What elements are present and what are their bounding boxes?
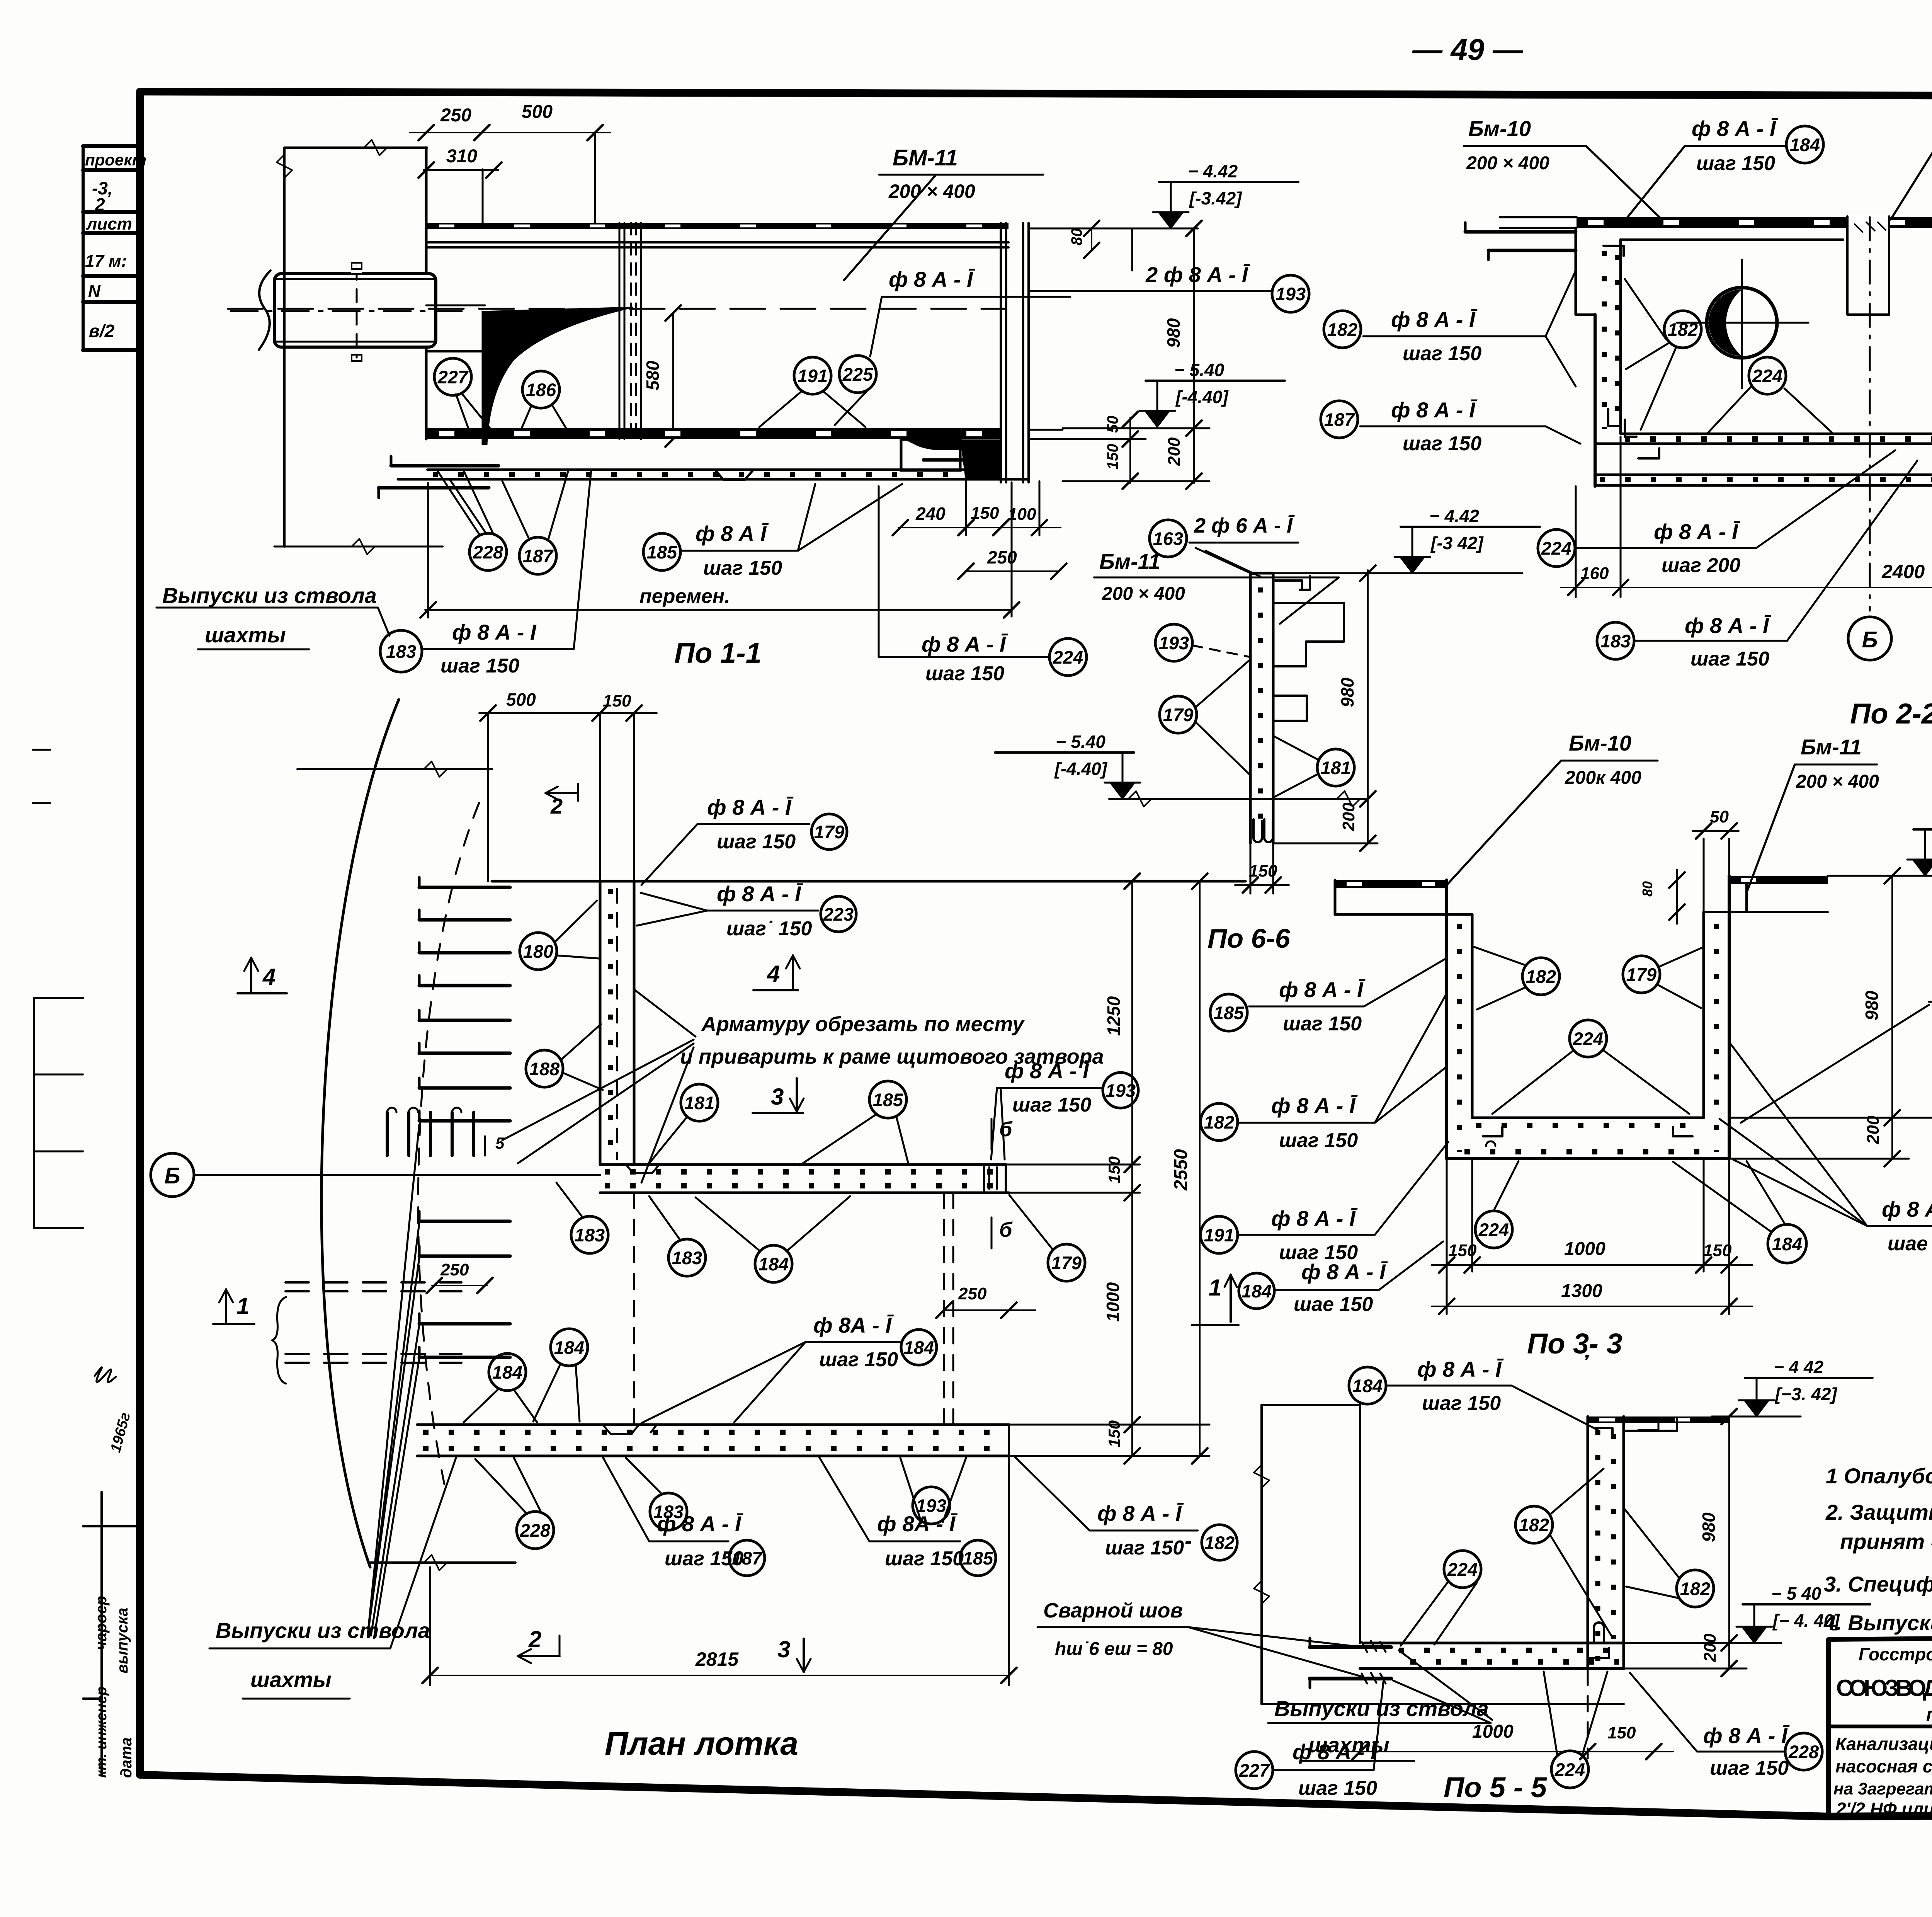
plan: bottom dim 2815 xyxy=(430,1675,1009,1676)
section 2-2: axis dash-dot line xyxy=(1869,217,1871,611)
svg-text:шаг 150: шаг 150 xyxy=(1403,432,1481,455)
section 2-2: left wall inner xyxy=(1619,240,1622,434)
svg-text:182: 182 xyxy=(1668,319,1698,340)
section 1-1: right ext horizontals xyxy=(1063,427,1209,429)
svg-text:Бм-10: Бм-10 xyxy=(1468,116,1531,141)
svg-text:шаг 200: шаг 200 xyxy=(1662,554,1740,577)
callout 179 xyxy=(1048,1244,1085,1281)
section 1-1: floor band bottom lines xyxy=(427,468,1001,471)
axis circle Б (2-2) xyxy=(1848,617,1891,660)
svg-text:лист: лист xyxy=(86,215,132,233)
svg-text:Канализационная: Канализационная xyxy=(1835,1734,1932,1754)
callout 182 xyxy=(1515,1506,1553,1543)
svg-text:200: 200 xyxy=(1339,802,1358,831)
callout 187 xyxy=(1321,401,1358,438)
svg-text:3: 3 xyxy=(777,1636,790,1662)
left fold marks xyxy=(33,998,35,1228)
callout 182 xyxy=(1664,311,1701,348)
callout 187 xyxy=(729,1540,765,1576)
section 1-1: right dims 50/150 xyxy=(1129,417,1131,483)
section 6-6: wall rebar dots xyxy=(1258,587,1263,835)
svg-text:3. Спецификацию арматуры смотр: 3. Спецификацию арматуры смотрите лист А… xyxy=(1824,1572,1932,1596)
svg-text:184: 184 xyxy=(1352,1376,1383,1396)
section 1-1: top dim 250/500 xyxy=(410,132,611,133)
svg-text:1: 1 xyxy=(236,1293,249,1319)
svg-text:ф 8 А - Ī: ф 8 А - Ī xyxy=(1654,519,1740,544)
section 1-1: wall below pipe xyxy=(425,349,428,439)
svg-text:ф 8 А - Ī: ф 8 А - Ī xyxy=(1703,1723,1790,1748)
section 2-2: wall rebar dots xyxy=(1602,251,1607,429)
section 1-1: top slab lower lines xyxy=(427,241,1009,243)
title block left horizontal divider xyxy=(1828,1725,1932,1728)
svg-text:шахты: шахты xyxy=(205,623,286,647)
title block outer box xyxy=(1828,1632,1932,1817)
svg-text:ф 8А - Ī: ф 8А - Ī xyxy=(813,1313,894,1337)
svg-text:184: 184 xyxy=(1242,1281,1272,1301)
svg-text:БМ-11: БМ-11 xyxy=(893,145,958,170)
section 3-3: bottom dim line 150/1000/150 xyxy=(1432,1264,1752,1266)
callout 193 xyxy=(1103,1073,1138,1108)
svg-text:250: 250 xyxy=(440,105,471,126)
svg-text:224: 224 xyxy=(1573,1028,1603,1049)
svg-text:шаг 150: шаг 150 xyxy=(1012,1094,1091,1116)
svg-text:шаг 150: шаг 150 xyxy=(819,1348,898,1371)
svg-text:По 2-2: По 2-2 xyxy=(1850,698,1932,730)
svg-text:− 5.40: − 5.40 xyxy=(1056,732,1106,752)
section 1-1: floor right step detail xyxy=(901,439,960,470)
svg-text:224: 224 xyxy=(1447,1559,1478,1580)
svg-text:228: 228 xyxy=(473,542,503,562)
callout 224 xyxy=(1570,1020,1607,1057)
section 1-1: step line above wedge xyxy=(426,305,485,306)
callout 184 xyxy=(1349,1367,1386,1404)
callout 224 xyxy=(1538,529,1575,567)
elevation mark -5.40 (1-1) xyxy=(1029,428,1198,429)
svg-text:17 м:: 17 м: xyxy=(85,252,127,271)
section 3-3: left wall dots xyxy=(1457,924,1462,1152)
svg-text:50: 50 xyxy=(1104,416,1121,433)
svg-text:hш˙6 еш = 80: hш˙6 еш = 80 xyxy=(1055,1639,1173,1659)
callout 224 xyxy=(1475,1211,1512,1248)
section 6-6: bottom hooks xyxy=(1253,819,1262,842)
callout 227 xyxy=(1236,1752,1273,1789)
elevation mark -4.42 (5-5) xyxy=(1712,1416,1801,1418)
section 2-2: top slab band xyxy=(1577,217,1932,228)
callout 185 xyxy=(643,533,680,570)
svg-text:− 5 40: − 5 40 xyxy=(1771,1583,1821,1604)
callout 185 xyxy=(960,1540,996,1576)
svg-text:[−3. 42]: [−3. 42] xyxy=(1774,1384,1837,1404)
svg-text:182: 182 xyxy=(1327,319,1357,340)
svg-text:183: 183 xyxy=(386,641,416,662)
svg-text:По 5 - 5: По 5 - 5 xyxy=(1444,1771,1548,1803)
plan: lower band waterstop dip xyxy=(603,1425,657,1434)
svg-text:N: N xyxy=(88,282,101,301)
section 3-3: right wall outer xyxy=(1728,876,1731,1159)
section 1-1: right slab arrow bar xyxy=(923,458,989,462)
svg-text:шахты: шахты xyxy=(1308,1733,1389,1757)
svg-text:200: 200 xyxy=(1165,437,1184,466)
svg-text:Сварной шов: Сварной шов xyxy=(1043,1599,1183,1622)
svg-text:шаг 150: шаг 150 xyxy=(1696,152,1775,175)
svg-text:шаг 150: шаг 150 xyxy=(1298,1777,1377,1800)
svg-text:СОЮЗВОДОКАНАЛПРОЕКT: СОЮЗВОДОКАНАЛПРОЕКT xyxy=(1836,1675,1932,1701)
section 3-3: right top ledge band xyxy=(1729,876,1828,884)
section 3-3: floor bottom line xyxy=(1447,1157,1729,1160)
section 1-1: right side horizontal stubs xyxy=(1029,429,1063,431)
svg-text:чароер: чароер xyxy=(93,1596,110,1650)
section 3-3: left wall outer xyxy=(1445,880,1448,1159)
svg-text:шаг 150: шаг 150 xyxy=(1283,1013,1362,1035)
section 3-3: left wall inner xyxy=(1471,914,1474,1118)
section 2-2: bottom dim line 160/2400 xyxy=(1561,587,1932,588)
svg-text:− 5.40: − 5.40 xyxy=(1174,360,1225,380)
section 2-2: floor band top lines xyxy=(1621,432,1932,435)
section 6-6: ground line xyxy=(1109,798,1366,800)
section 5-5: floor bottom hook xyxy=(1588,1648,1609,1658)
svg-text:224: 224 xyxy=(1478,1219,1509,1240)
svg-text:шаг 150: шаг 150 xyxy=(1422,1392,1501,1415)
svg-text:1000: 1000 xyxy=(1472,1721,1514,1742)
callout 179 xyxy=(1623,956,1660,993)
svg-text:п Москва: п Москва xyxy=(1926,1704,1932,1725)
callout 183 xyxy=(668,1239,706,1276)
svg-text:980: 980 xyxy=(1163,318,1184,348)
section 5-5: wall dots xyxy=(1595,1430,1600,1662)
section 1-1: dim 310 xyxy=(423,169,498,171)
callout 182 xyxy=(1522,958,1560,995)
plan: dim 250 stub xyxy=(432,1285,487,1286)
plan: upper wall band horizontal xyxy=(600,1163,1006,1166)
section 5-5: floor left stubs weld hatch xyxy=(1310,1645,1391,1649)
section 2-2: floor band bottom xyxy=(1595,473,1932,476)
svg-text:228: 228 xyxy=(520,1520,551,1541)
svg-text:187: 187 xyxy=(1324,409,1355,430)
callout 184 xyxy=(489,1353,526,1391)
svg-text:186: 186 xyxy=(526,380,556,400)
callout 225 xyxy=(839,356,876,393)
svg-text:180: 180 xyxy=(523,941,553,962)
section 1-1: dim 580 vertical xyxy=(672,313,674,439)
plan: top horizontal line xyxy=(298,768,492,770)
svg-text:шаг 150: шаг 150 xyxy=(1279,1241,1358,1264)
section 5-5: formwork outline left xyxy=(1260,1405,1263,1704)
section 1-1: shaft top line xyxy=(284,146,427,149)
section 5-5: top right step xyxy=(1624,1430,1677,1432)
svg-text:179: 179 xyxy=(814,822,844,842)
section 1-1: ext vertical right slab xyxy=(1131,228,1133,271)
svg-text:на 3агрегата с насосами: на 3агрегата с насосами xyxy=(1833,1779,1932,1798)
svg-text:150: 150 xyxy=(971,504,999,523)
svg-text:187: 187 xyxy=(732,1548,763,1568)
section 3-3: dim 980/200 right xyxy=(1891,876,1893,1159)
plan: ladder rebar stubs lower xyxy=(419,1220,510,1223)
section 1-1: pipe centerline dash-dot xyxy=(231,310,466,312)
svg-text:200 × 400: 200 × 400 xyxy=(888,180,975,202)
svg-text:ф 8 А - Ī: ф 8 А - Ī xyxy=(1391,307,1478,332)
svg-text:193: 193 xyxy=(1276,284,1306,304)
svg-text:Бм-11: Бм-11 xyxy=(1099,549,1160,574)
section 3-3: left ledge band xyxy=(1335,880,1447,888)
plan: outer dim 2550 xyxy=(1199,881,1201,1456)
svg-text:Госстрой: Госстрой xyxy=(1859,1644,1932,1664)
section 5-5: dim 980/200 xyxy=(1728,1416,1730,1668)
svg-text:шаг˙ 150: шаг˙ 150 xyxy=(726,918,812,940)
svg-text:б: б xyxy=(999,1118,1013,1141)
svg-text:150: 150 xyxy=(1104,444,1121,470)
svg-text:5: 5 xyxy=(495,1134,505,1152)
callout 182 xyxy=(1324,311,1361,348)
svg-text:200 × 400: 200 × 400 xyxy=(1102,584,1185,604)
svg-text:187: 187 xyxy=(523,546,554,566)
section 1-1: dim extension x=1249 xyxy=(482,169,484,223)
svg-text:224: 224 xyxy=(1053,647,1083,667)
plan: lower wall band horizontal xyxy=(417,1423,1009,1426)
section 1-1: shaft wall vertical line xyxy=(283,148,286,546)
svg-text:− 4.42: − 4.42 xyxy=(1429,506,1480,526)
svg-text:3: 3 xyxy=(771,1084,784,1110)
svg-text:160: 160 xyxy=(1580,564,1609,583)
svg-text:2400: 2400 xyxy=(1881,561,1925,582)
svg-text:580: 580 xyxy=(643,361,663,390)
callout 183 xyxy=(1597,622,1634,659)
section 1-1: dim 80 xyxy=(1091,228,1092,250)
svg-text:ф 8 А - I: ф 8 А - I xyxy=(452,620,537,644)
svg-text:[-3.42]: [-3.42] xyxy=(1189,188,1242,208)
section 1-1: dims 240/150/100 xyxy=(898,527,1061,528)
svg-text:2 ф 8 А - Ī: 2 ф 8 А - Ī xyxy=(1145,262,1250,287)
svg-text:шаг 150: шаг 150 xyxy=(703,557,782,579)
callout 179 xyxy=(1160,696,1197,733)
section 3-3: floor corner hooks xyxy=(1483,1127,1502,1136)
svg-text:− 4 42: − 4 42 xyxy=(1774,1357,1824,1377)
svg-text:181: 181 xyxy=(684,1093,714,1113)
svg-text:184: 184 xyxy=(904,1337,934,1358)
svg-text:шахты: шахты xyxy=(250,1667,332,1692)
svg-text:в/2: в/2 xyxy=(89,321,115,341)
svg-text:[-4.40]: [-4.40] xyxy=(1175,387,1229,407)
svg-text:980: 980 xyxy=(1699,1512,1719,1542)
svg-text:шаг 150: шаг 150 xyxy=(717,831,796,853)
svg-text:шае 150: шае 150 xyxy=(1294,1293,1373,1316)
section 1-1: shaft bottom line xyxy=(274,546,443,548)
callout 183 xyxy=(380,630,422,672)
section 2-2: pipe crescent shading xyxy=(1709,289,1742,356)
callout 224 xyxy=(1049,638,1087,676)
section 5-5: wall top band xyxy=(1588,1416,1729,1423)
plan: brace between dashed stubs xyxy=(272,1297,286,1384)
svg-text:1000: 1000 xyxy=(1103,1282,1123,1322)
svg-text:193: 193 xyxy=(1159,633,1189,653)
svg-text:ф 8 А - Ī: ф 8 А - Ī xyxy=(657,1512,743,1536)
section 3-3: right wall dots xyxy=(1714,924,1719,1152)
svg-text:224: 224 xyxy=(1554,1759,1585,1780)
section 5-5: top hooks xyxy=(1594,1428,1612,1437)
svg-text:ф 8 А - Ī: ф 8 А - Ī xyxy=(889,267,975,291)
svg-text:2. Защитный слой бетона для ар: 2. Защитный слой бетона для арматуры в л… xyxy=(1825,1500,1932,1524)
svg-text:223: 223 xyxy=(823,904,854,924)
svg-text:[− 4. 40]: [− 4. 40] xyxy=(1772,1611,1840,1631)
svg-text:310: 310 xyxy=(446,146,477,167)
section 5-5: bottom dim 1000/150 xyxy=(1345,1751,1673,1752)
svg-text:шаг 150: шаг 150 xyxy=(1105,1537,1184,1559)
callout 191 xyxy=(794,357,831,394)
callout 228 xyxy=(517,1512,554,1549)
callout 184 xyxy=(1768,1224,1806,1263)
svg-text:проект: проект xyxy=(85,151,146,169)
svg-text:шаг 150: шаг 150 xyxy=(885,1548,964,1570)
section 1-1: right wall verticals xyxy=(1000,223,1002,482)
section 3-3: right wall inner xyxy=(1702,912,1705,1118)
svg-text:188: 188 xyxy=(529,1059,560,1079)
svg-text:980: 980 xyxy=(1862,991,1882,1020)
section 1-1: pipe vertical dashed line xyxy=(356,267,358,358)
svg-text:179: 179 xyxy=(1626,964,1656,985)
section 1-1: pipe broken end curve xyxy=(259,271,270,350)
svg-text:По 6-6: По 6-6 xyxy=(1207,923,1291,953)
svg-text:250: 250 xyxy=(958,1284,987,1303)
section 5-5: bottom line xyxy=(1262,1703,1624,1705)
svg-text:ф 8 А - Ī: ф 8 А - Ī xyxy=(1097,1501,1184,1525)
svg-text:182: 182 xyxy=(1204,1112,1234,1132)
section 3-3: floor top line xyxy=(1472,1117,1704,1119)
svg-text:183: 183 xyxy=(575,1225,605,1245)
elevation mark -5.40 (3-3) xyxy=(1729,1117,1932,1119)
svg-text:2550: 2550 xyxy=(1171,1149,1191,1191)
callout 184 xyxy=(1239,1273,1274,1309)
callout 181 xyxy=(1317,749,1354,786)
svg-text:2: 2 xyxy=(95,194,105,215)
svg-text:179: 179 xyxy=(1051,1253,1082,1273)
plan: top outline line xyxy=(492,880,1245,883)
svg-text:шаг 150: шаг 150 xyxy=(1690,648,1769,670)
section 6-6: right step lower xyxy=(1273,696,1307,721)
svg-text:1250: 1250 xyxy=(1104,996,1124,1036)
svg-text:150: 150 xyxy=(1703,1241,1732,1260)
callout 223 xyxy=(821,896,856,932)
svg-text:-: - xyxy=(1185,1528,1192,1553)
svg-text:2: 2 xyxy=(528,1626,541,1652)
svg-text:184: 184 xyxy=(1790,134,1820,155)
svg-text:ф 8 А - Ī: ф 8 А - Ī xyxy=(707,795,794,819)
section 2-2: pipe circle opening xyxy=(1707,288,1777,358)
svg-text:185: 185 xyxy=(963,1548,993,1568)
callout 193 xyxy=(1155,624,1192,661)
svg-text:4: 4 xyxy=(262,964,276,990)
section 6-6: right step upper xyxy=(1273,603,1344,666)
svg-text:200: 200 xyxy=(1701,1633,1719,1662)
section 2-2: top-left stub bars xyxy=(1465,230,1576,234)
svg-text:перемен.: перемен. xyxy=(639,585,730,608)
svg-text:дата: дата xyxy=(118,1737,135,1778)
svg-text:1300: 1300 xyxy=(1561,1281,1602,1301)
svg-text:насосная станция: насосная станция xyxy=(1835,1756,1932,1776)
callout 163 xyxy=(1150,520,1187,557)
svg-text:[-3 42]: [-3 42] xyxy=(1430,533,1484,553)
svg-text:185: 185 xyxy=(1214,1003,1244,1023)
svg-text:500: 500 xyxy=(506,690,536,710)
section 6-6: dim 200 xyxy=(1367,799,1369,843)
svg-text:191: 191 xyxy=(798,366,828,386)
svg-text:150: 150 xyxy=(603,691,631,710)
section 1-1: ext vertical right bottom xyxy=(1011,482,1013,616)
svg-text:шаг 150: шаг 150 xyxy=(925,662,1004,685)
callout 181 xyxy=(681,1084,718,1121)
callout 228 xyxy=(1785,1733,1822,1770)
section 5-5: wall verticals xyxy=(1587,1416,1589,1668)
plan: shaft wall arc solid xyxy=(321,700,399,1567)
callout 182 xyxy=(1202,1525,1237,1560)
section 6-6: top level line xyxy=(1273,572,1522,574)
section 1-1: top slab band xyxy=(427,223,1009,229)
callout 193 xyxy=(913,1487,950,1524)
callout 191 xyxy=(1201,1216,1238,1253)
callout 186 xyxy=(522,371,560,408)
svg-text:224: 224 xyxy=(1752,366,1782,386)
callout 193 xyxy=(1272,275,1309,312)
svg-text:ф 8 А - Ī: ф 8 А - Ī xyxy=(1685,613,1771,638)
svg-text:50: 50 xyxy=(1710,807,1729,826)
callout 182 xyxy=(1201,1103,1238,1141)
svg-text:182: 182 xyxy=(1519,1515,1549,1535)
plan: upper band waterstop dip xyxy=(626,1165,659,1173)
svg-text:кт. инженер: кт. инженер xyxy=(94,1687,110,1778)
plan: inner dim chain 1250/150/1000/150 xyxy=(1131,881,1133,1456)
axis circle Б (plan) xyxy=(151,1153,194,1197)
callout 184 xyxy=(1786,126,1823,163)
section 1-1: left rebar stub lower xyxy=(379,486,489,490)
svg-text:200 × 400: 200 × 400 xyxy=(1796,771,1879,792)
svg-text:224: 224 xyxy=(1541,538,1571,558)
elevation mark -4.42 (3-3) xyxy=(1828,875,1932,877)
svg-text:ф 8А - Ī: ф 8А - Ī xyxy=(877,1512,957,1536)
svg-text:228: 228 xyxy=(1788,1742,1819,1762)
section 2-2: left ledge line xyxy=(1621,238,1843,241)
callout 187 xyxy=(519,537,556,574)
plan: dashed stub pair 2 xyxy=(286,1353,461,1355)
svg-text:240: 240 xyxy=(915,504,946,524)
svg-text:80: 80 xyxy=(1639,881,1655,897)
callout 228 xyxy=(469,533,507,570)
section 1-1: right dims 980/200 xyxy=(1193,228,1195,483)
svg-text:225: 225 xyxy=(842,364,873,385)
svg-text:184: 184 xyxy=(554,1337,584,1358)
svg-text:150: 150 xyxy=(1105,1156,1123,1183)
svg-text:200: 200 xyxy=(1864,1115,1883,1144)
svg-text:4. Выпуски из стволашахты смот: 4. Выпуски из стволашахты смотрите лист … xyxy=(1823,1611,1932,1635)
svg-text:163: 163 xyxy=(1153,528,1183,549)
plan: bottom shaft line xyxy=(369,1561,515,1564)
svg-text:185: 185 xyxy=(647,542,677,562)
callout 224 xyxy=(1444,1551,1481,1588)
section 1-1: axis dashed line xyxy=(228,308,1005,310)
svg-text:191: 191 xyxy=(1204,1225,1234,1245)
svg-text:150: 150 xyxy=(1607,1723,1636,1742)
callout 180 xyxy=(520,933,557,970)
plan: left wall verticals xyxy=(599,881,602,1165)
svg-text:182: 182 xyxy=(1526,966,1556,987)
section 1-1: pipe outline xyxy=(274,274,436,347)
section 2-2: wall bottom L hooks xyxy=(1608,409,1620,426)
svg-text:183: 183 xyxy=(1600,631,1631,651)
svg-text:принят - 20мм.: принят - 20мм. xyxy=(1840,1529,1932,1554)
section 2-2: notch verticals xyxy=(1847,215,1890,230)
svg-text:Выпуски из ствола: Выпуски из ствола xyxy=(162,583,377,608)
svg-text:ф 8 А - Ī: ф 8 А - Ī xyxy=(1279,977,1366,1002)
callout 185 xyxy=(869,1081,906,1118)
svg-text:По 3̦- 3: По 3̦- 3 xyxy=(1527,1328,1622,1360)
callout 184 xyxy=(551,1329,588,1366)
